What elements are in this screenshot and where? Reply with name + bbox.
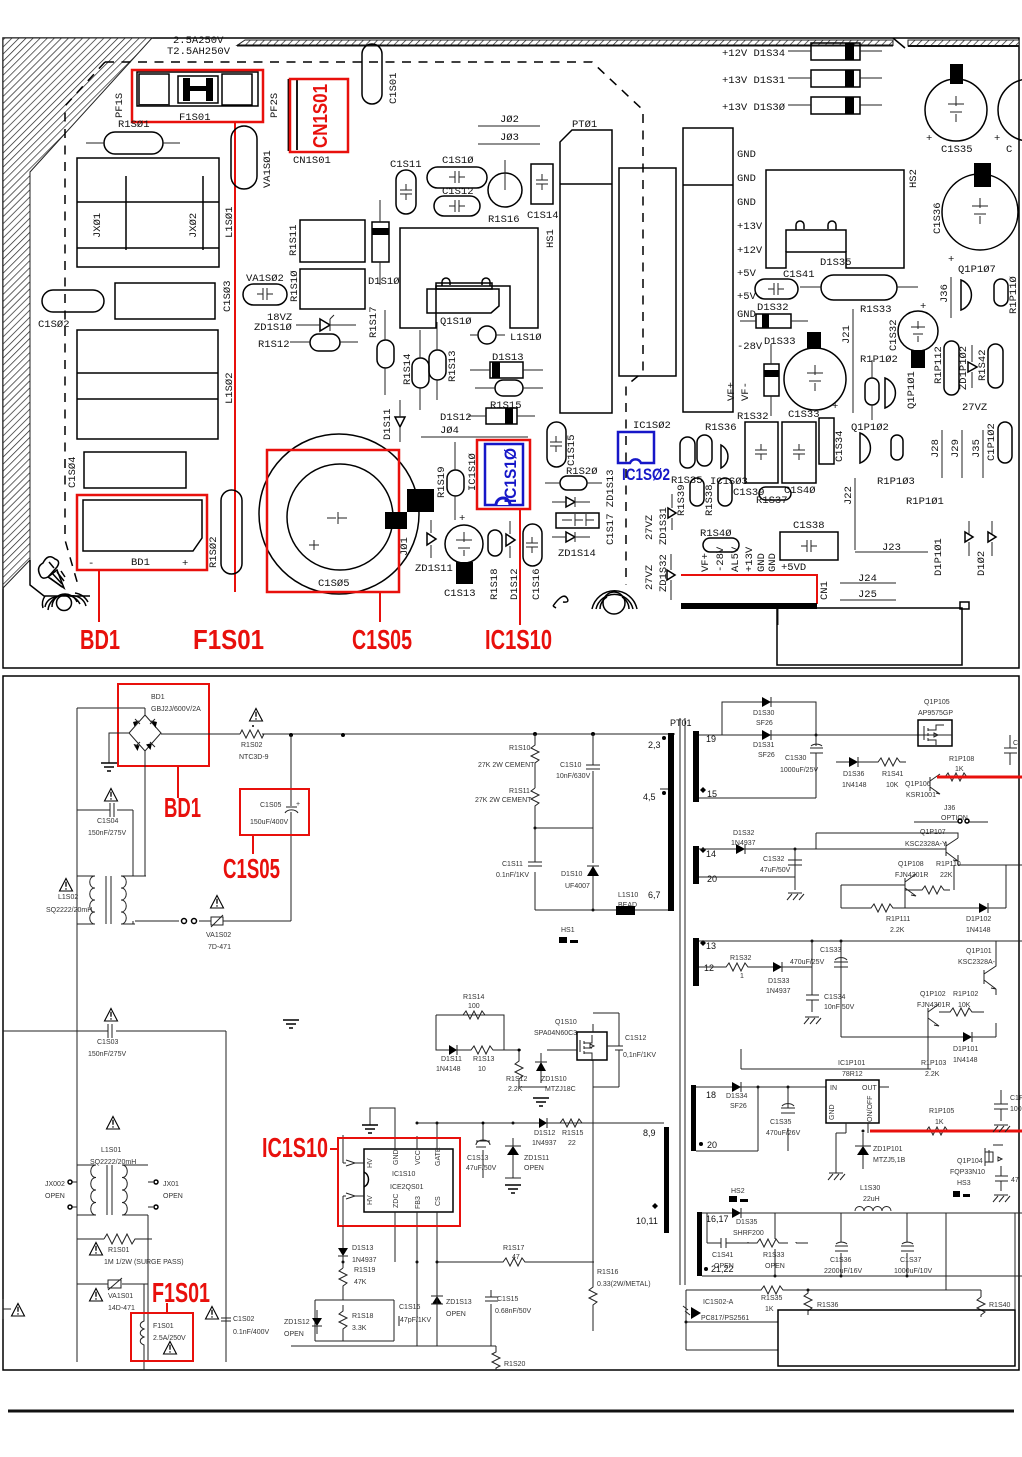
svg-text:D1S10: D1S10	[561, 871, 583, 878]
resistor R1P108	[940, 756, 974, 781]
svg-text:R1SØ2: R1SØ2	[208, 536, 220, 568]
svg-text:0.1nF/1KV: 0.1nF/1KV	[496, 872, 529, 879]
svg-text:ZDC: ZDC	[393, 1194, 400, 1208]
resistor R1S10	[478, 734, 539, 788]
resistor R1S11 block	[300, 220, 365, 262]
bead L1S10	[616, 892, 638, 915]
svg-text:C1S4Ø: C1S4Ø	[784, 485, 816, 497]
inductor L1S10	[470, 326, 505, 344]
wire J04	[421, 436, 528, 438]
svg-text:CN1S01: CN1S01	[293, 155, 331, 167]
capacitor C1S37 edge	[994, 79, 1022, 156]
svg-text:10nF/630V: 10nF/630V	[556, 773, 591, 780]
svg-text:OPEN: OPEN	[765, 1263, 785, 1270]
svg-text:J21: J21	[841, 325, 853, 344]
svg-text:27VZ: 27VZ	[644, 515, 656, 540]
capacitor C1S32	[888, 301, 938, 368]
wire x133	[133, 810, 135, 924]
svg-text:-28V: -28V	[715, 546, 727, 572]
svg-text:+13V: +13V	[744, 546, 756, 572]
svg-text:+5V: +5V	[737, 291, 757, 303]
svg-text:GND: GND	[829, 1104, 836, 1120]
svg-text:ZD1S11: ZD1S11	[524, 1155, 549, 1162]
svg-text:JØ4: JØ4	[440, 425, 459, 437]
capacitor C1S36 s5	[824, 1242, 862, 1275]
resistor R1S40	[700, 528, 739, 552]
diode D1S12 schematic	[532, 1118, 557, 1147]
diode D1S30 row	[722, 97, 882, 114]
svg-text:+: +	[994, 133, 1000, 145]
svg-text:OPEN: OPEN	[524, 1165, 544, 1172]
pin 14	[700, 847, 716, 859]
capacitor C1S11	[496, 861, 542, 879]
resistor R1S36	[697, 422, 737, 466]
svg-text:C1S14: C1S14	[527, 210, 559, 222]
S1 winding bar 19/15	[693, 731, 699, 802]
svg-text:JX002: JX002	[45, 1181, 65, 1188]
diode D1S11	[395, 400, 405, 442]
jumper J03	[478, 132, 540, 144]
svg-text:OPEN: OPEN	[45, 1193, 65, 1200]
jumper J28	[930, 430, 942, 478]
svg-text:HS3: HS3	[957, 1180, 971, 1187]
svg-text:L1S10: L1S10	[618, 892, 638, 899]
zener ZD1S32	[667, 554, 675, 600]
svg-text:7D-471: 7D-471	[208, 944, 231, 951]
resistor R1S14	[412, 330, 429, 410]
ground C1S34	[804, 1017, 821, 1024]
red line S4	[870, 1130, 1022, 1133]
resistor R1S13	[429, 322, 446, 400]
transistor Q1S10	[427, 283, 499, 313]
svg-text:ON/OFF: ON/OFF	[867, 1096, 874, 1122]
svg-text:1N4148: 1N4148	[436, 1066, 461, 1073]
wire buses lower-left	[148, 1031, 226, 1362]
zener pair bottom	[552, 532, 590, 542]
svg-text:3.3K: 3.3K	[352, 1325, 367, 1332]
svg-text:+: +	[182, 558, 188, 570]
svg-text:VA1SØ1: VA1SØ1	[262, 150, 274, 188]
svg-text:R1P102: R1P102	[953, 991, 978, 998]
ground regulator	[828, 1133, 845, 1180]
capacitor C1S05 inner	[287, 464, 393, 570]
junction dots	[342, 734, 909, 1324]
svg-text:BD1: BD1	[151, 694, 165, 701]
pin 4,5	[643, 789, 668, 802]
svg-text:SHRF200: SHRF200	[733, 1230, 764, 1237]
resistor R1S15 schematic	[560, 1119, 584, 1147]
svg-text:R1S1Ø: R1S1Ø	[289, 270, 301, 302]
svg-text:+: +	[459, 513, 465, 525]
primary bottom rail	[535, 909, 668, 911]
svg-text:R1S19: R1S19	[436, 466, 448, 498]
zener ZD1P101	[855, 1133, 906, 1169]
jumper J29	[950, 430, 962, 478]
blue box IC1S02	[618, 432, 654, 463]
capacitor C1S35	[925, 64, 987, 156]
resistor R1S35 s5	[745, 1286, 981, 1313]
jumper J36 schematic	[914, 805, 988, 823]
svg-text:+: +	[296, 801, 300, 808]
diode D1S31	[753, 730, 775, 759]
CN1 connector red box	[681, 575, 817, 625]
svg-text:L1S01: L1S01	[101, 1147, 121, 1154]
svg-text:J36: J36	[939, 284, 951, 303]
svg-text:L1S02: L1S02	[58, 894, 78, 901]
resistor R1S36 s5	[804, 1290, 839, 1315]
svg-text:2200uF/16V: 2200uF/16V	[824, 1268, 862, 1275]
svg-text:R1S11: R1S11	[288, 224, 300, 256]
svg-text:2.2K: 2.2K	[925, 1071, 940, 1078]
ground C1P104	[993, 1195, 1010, 1202]
svg-text:SF26: SF26	[756, 720, 773, 727]
svg-text:C1S05: C1S05	[223, 853, 280, 884]
diode D1P102	[976, 521, 996, 576]
hatched corner band	[3, 38, 1019, 588]
heatsink HS2	[766, 170, 904, 268]
svg-text:27K 2W CEMENT: 27K 2W CEMENT	[475, 797, 532, 804]
svg-text:16,17: 16,17	[706, 1214, 729, 1224]
svg-text:C1S36: C1S36	[932, 202, 944, 234]
capacitor C1S05 schematic	[250, 735, 300, 921]
svg-text:+5V: +5V	[737, 268, 757, 280]
capacitor C1S02	[42, 290, 104, 312]
svg-text:8,9: 8,9	[643, 1128, 656, 1138]
PT01 core lines	[680, 718, 685, 1285]
regulator IC1P102	[826, 1080, 889, 1133]
resistor R1S12	[506, 1049, 547, 1094]
svg-text:BD1: BD1	[131, 557, 150, 569]
IC1P101 label	[838, 1060, 865, 1078]
svg-text:470uF/25V: 470uF/25V	[790, 959, 825, 966]
svg-text:R1S33: R1S33	[860, 304, 892, 316]
warning L1S01	[107, 1117, 120, 1130]
svg-text:C1S35: C1S35	[941, 144, 973, 156]
svg-text:R1S18: R1S18	[352, 1313, 374, 1320]
resistor R1S02	[221, 490, 242, 574]
svg-text:R1S36: R1S36	[705, 422, 737, 434]
dual diode block C1S17 ZD1S13	[556, 513, 599, 528]
capacitor C1S05 outer	[259, 434, 419, 594]
bottom wire	[291, 1262, 496, 1346]
red box CN1S01	[290, 79, 348, 152]
svg-text:R1P110: R1P110	[936, 861, 961, 868]
svg-text:R1S32: R1S32	[737, 411, 769, 423]
label 27VZ ZD1S31	[644, 507, 670, 545]
svg-text:C1S13: C1S13	[444, 588, 476, 600]
svg-text:1K: 1K	[765, 1306, 774, 1313]
svg-text:R1S02: R1S02	[241, 742, 263, 749]
svg-text:C1S17 ZD1S13: C1S17 ZD1S13	[605, 469, 617, 545]
svg-text:22: 22	[568, 1140, 576, 1147]
svg-text:20: 20	[707, 1140, 717, 1150]
resistor R1S18 schematic	[339, 1305, 374, 1341]
svg-text:Q1P1Ø7: Q1P1Ø7	[958, 264, 996, 276]
svg-text:CN1: CN1	[819, 581, 831, 600]
svg-text:ZD1S1Ø: ZD1S1Ø	[254, 322, 292, 334]
resistor R1S33	[800, 275, 918, 316]
svg-text:GND: GND	[767, 553, 779, 572]
svg-text:R1S42: R1S42	[977, 349, 989, 381]
svg-text:D1S35: D1S35	[736, 1219, 758, 1226]
svg-text:10nF 50V: 10nF 50V	[824, 1004, 855, 1011]
transistor Q1P107 s2	[905, 829, 958, 865]
resistor R1S02 ntc	[226, 730, 269, 761]
svg-text:R1S12: R1S12	[258, 339, 290, 351]
svg-text:KSR1001: KSR1001	[906, 792, 936, 799]
svg-text:C1SØ4: C1SØ4	[67, 456, 79, 488]
svg-text:L1S1Ø: L1S1Ø	[510, 332, 542, 344]
red box IC1S10 schematic	[338, 1138, 460, 1226]
IC pin stubs	[395, 1123, 437, 1262]
pin 13	[700, 940, 716, 951]
svg-text:C: C	[1006, 144, 1012, 156]
svg-text:Q1P104: Q1P104	[957, 1158, 983, 1165]
svg-text:C1S12: C1S12	[625, 1035, 647, 1042]
diode D1S30	[753, 697, 775, 727]
svg-text:22uH: 22uH	[863, 1196, 880, 1203]
svg-text:GATE: GATE	[435, 1147, 442, 1166]
svg-text:Q1P101: Q1P101	[966, 948, 992, 955]
svg-text:VF-: VF-	[740, 382, 752, 401]
svg-text:Q1P1Ø2: Q1P1Ø2	[851, 422, 889, 434]
svg-text:FQP33N10: FQP33N10	[950, 1169, 985, 1176]
svg-text:IC1S1Ø: IC1S1Ø	[501, 448, 520, 503]
red box IC1S10	[477, 440, 530, 509]
svg-text:+5VD: +5VD	[781, 562, 806, 574]
svg-text:IC1S02-A: IC1S02-A	[703, 1299, 734, 1306]
svg-text:100: 100	[468, 1003, 480, 1010]
svg-text:C1S02: C1S02	[233, 1316, 255, 1323]
svg-text:+: +	[920, 301, 926, 313]
svg-text:D1S1Ø: D1S1Ø	[368, 276, 400, 288]
svg-text:D1S12: D1S12	[509, 568, 521, 600]
S2 winding bar 14/20	[693, 846, 699, 884]
svg-text:+13V: +13V	[737, 221, 763, 233]
svg-text:HS2: HS2	[908, 169, 920, 188]
svg-text:J36: J36	[944, 805, 955, 812]
svg-text:1N4148: 1N4148	[953, 1057, 978, 1064]
jumper block JX01 JX02	[77, 158, 219, 267]
svg-text:+: +	[948, 254, 954, 266]
svg-text:BD1: BD1	[164, 792, 201, 823]
svg-text:1N4148: 1N4148	[842, 782, 867, 789]
svg-text:OPEN: OPEN	[446, 1311, 466, 1318]
svg-text:13: 13	[706, 941, 716, 951]
S3 lower wires	[741, 975, 950, 1069]
svg-text:C1S38: C1S38	[793, 520, 825, 532]
resistor R1S19 schematic	[339, 1267, 376, 1295]
svg-text:47uF/50V: 47uF/50V	[760, 867, 791, 874]
red box F1S01	[132, 70, 263, 122]
svg-text:GND: GND	[737, 149, 756, 161]
svg-text:+13V D1S3Ø: +13V D1S3Ø	[722, 102, 785, 114]
svg-text:J28: J28	[930, 439, 942, 458]
diode D1S13 schematic	[338, 1226, 377, 1268]
svg-text:470uF/26V: 470uF/26V	[766, 1130, 801, 1137]
svg-text:VA1S02: VA1S02	[206, 932, 231, 939]
svg-text:R1S01: R1S01	[108, 1247, 130, 1254]
S5 vertical edge	[1014, 1276, 1016, 1310]
red leader F1S01	[234, 122, 236, 592]
transistor Q1P107 body	[961, 280, 971, 310]
MOSFET Q1P104	[950, 1145, 1003, 1187]
svg-text:SF26: SF26	[758, 752, 775, 759]
zener ZD1S10	[296, 315, 356, 331]
resistor R1S15	[475, 380, 543, 396]
svg-text:C1S11: C1S11	[502, 861, 523, 868]
bottom-right rect	[777, 602, 969, 665]
transformer PT01 mid block	[619, 168, 676, 376]
svg-text:C1S33: C1S33	[820, 947, 842, 954]
red box BD1	[77, 495, 207, 570]
jumper J21	[841, 309, 853, 413]
svg-text:ZD1S10: ZD1S10	[541, 1076, 567, 1083]
resistor R1S19	[436, 442, 464, 520]
label 10,11	[636, 1203, 658, 1226]
pin 2,3	[648, 736, 666, 750]
svg-text:C1S15: C1S15	[497, 1296, 519, 1303]
svg-text:47: 47	[512, 1254, 520, 1261]
svg-text:GND: GND	[737, 173, 756, 185]
svg-text:1000uF/10V: 1000uF/10V	[894, 1268, 932, 1275]
red leader IC1S10 schematic	[330, 1148, 338, 1150]
svg-text:R1S13: R1S13	[447, 350, 459, 382]
svg-text:2.5A/250V: 2.5A/250V	[153, 1335, 186, 1342]
svg-text:D1S34: D1S34	[726, 1093, 748, 1100]
svg-text:10K: 10K	[886, 782, 899, 789]
svg-text:J35: J35	[971, 439, 983, 458]
resistor R1S16	[488, 160, 522, 207]
svg-text:C1S01: C1S01	[388, 72, 400, 104]
svg-text:1: 1	[740, 973, 744, 980]
svg-text:HV: HV	[367, 1158, 374, 1168]
svg-text:C1S03: C1S03	[97, 1039, 119, 1046]
svg-text:D1Ø2: D1Ø2	[976, 551, 988, 576]
svg-text:ZD1S13: ZD1S13	[446, 1299, 472, 1306]
svg-text:HS1: HS1	[545, 229, 557, 248]
varistor VA1S01	[77, 1278, 148, 1312]
resistor R1S13	[465, 1046, 521, 1073]
svg-text:C1S1Ø: C1S1Ø	[442, 155, 474, 167]
red leader BD1	[98, 570, 100, 622]
capacitor C1P102	[986, 422, 1012, 463]
capacitor C1S30	[780, 744, 823, 774]
red box BD1 schematic	[118, 684, 209, 766]
svg-text:PF1S: PF1S	[114, 93, 126, 118]
resistor R1S35	[671, 437, 703, 487]
wire bridge bottom	[133, 751, 146, 876]
pad blobs near C1S05	[407, 489, 434, 512]
svg-text:AP9575GP: AP9575GP	[918, 710, 953, 717]
svg-text:C1S11: C1S11	[390, 159, 422, 171]
svg-text:R1SØ1: R1SØ1	[118, 119, 150, 131]
IC ground loop	[362, 1108, 395, 1149]
pad arcs bottom	[592, 591, 637, 614]
svg-text:C1S13: C1S13	[467, 1155, 489, 1162]
svg-text:F1S01: F1S01	[153, 1323, 174, 1330]
svg-text:VCC: VCC	[415, 1150, 422, 1165]
svg-text:VF+: VF+	[700, 553, 712, 572]
transistor Q1P102	[851, 422, 903, 463]
capacitor C1S02 schematic	[221, 1310, 270, 1336]
svg-text:27K 2W CEMENT: 27K 2W CEMENT	[478, 762, 535, 769]
svg-text:R1S12: R1S12	[506, 1076, 528, 1083]
capacitor C1S39	[733, 422, 778, 499]
svg-text:1N4937: 1N4937	[766, 988, 791, 995]
connector CN1S01	[289, 79, 298, 151]
CN1 pin labels	[700, 546, 806, 574]
svg-text:D1S13: D1S13	[492, 352, 524, 364]
svg-text:27VZ: 27VZ	[644, 565, 656, 590]
S4 winding bar 18/20	[691, 1085, 696, 1151]
capacitor C1S34	[819, 418, 846, 464]
wire hook	[553, 596, 568, 608]
resistor R1S40 s5	[946, 1276, 1011, 1317]
transistor Q1P102 s3	[917, 991, 950, 1026]
svg-text:C1S35: C1S35	[770, 1119, 792, 1126]
resistor R1S17	[377, 310, 394, 395]
S1 wires	[699, 702, 936, 798]
svg-text:14D-471: 14D-471	[108, 1305, 135, 1312]
zener ZD1S11 pcb	[415, 520, 453, 575]
red box F1S01 schematic	[131, 1313, 193, 1361]
PT01 primary bar	[668, 733, 674, 911]
warning C1S02	[206, 1307, 219, 1320]
svg-text:C: C	[1013, 740, 1018, 747]
svg-text:IC1P101: IC1P101	[838, 1060, 865, 1067]
transistor Q1P105	[918, 699, 953, 746]
red box C1S05 schematic	[240, 789, 309, 835]
S5 winding bar 16,17/21,22	[697, 1212, 702, 1276]
jumper J35	[971, 430, 983, 478]
svg-text:-28V: -28V	[737, 341, 763, 353]
diode D1S34 s4	[726, 1082, 748, 1110]
svg-text:D1S11: D1S11	[382, 408, 394, 440]
svg-text:C1S37: C1S37	[900, 1257, 922, 1264]
varistor VA1S02	[243, 284, 287, 305]
svg-text:4,5: 4,5	[643, 792, 656, 802]
junction x343	[341, 733, 345, 737]
block C1S03	[115, 283, 215, 319]
svg-text:6,7: 6,7	[648, 890, 661, 900]
svg-text:JX01: JX01	[163, 1181, 179, 1188]
svg-text:R1S40: R1S40	[989, 1302, 1011, 1309]
label 27VZ ZD1S32	[644, 554, 670, 592]
capacitor C1S33 s3	[790, 947, 848, 967]
svg-text:R1S15: R1S15	[562, 1130, 584, 1137]
svg-text:1K: 1K	[955, 766, 964, 773]
diode D1S12	[468, 408, 535, 424]
svg-text:OPTION: OPTION	[941, 815, 968, 822]
diode D1P101 s3	[950, 1023, 996, 1064]
svg-text:14: 14	[706, 849, 716, 859]
svg-text:VA1S01: VA1S01	[108, 1293, 133, 1300]
svg-text:22K: 22K	[940, 872, 953, 879]
svg-text:+: +	[832, 401, 838, 413]
svg-text:1N4937: 1N4937	[731, 840, 756, 847]
svg-text:ZD1P101: ZD1P101	[873, 1146, 903, 1153]
jumper JX01	[148, 1180, 183, 1209]
resistor R1S32	[722, 955, 752, 980]
svg-text:C1S10: C1S10	[560, 762, 582, 769]
svg-text:20: 20	[707, 874, 717, 884]
panel border	[3, 38, 1019, 668]
capacitor C1S04	[77, 803, 133, 837]
svg-text:C1S32: C1S32	[888, 319, 900, 351]
resistor R1P110	[916, 861, 961, 894]
svg-text:MTZJ18C: MTZJ18C	[545, 1086, 576, 1093]
